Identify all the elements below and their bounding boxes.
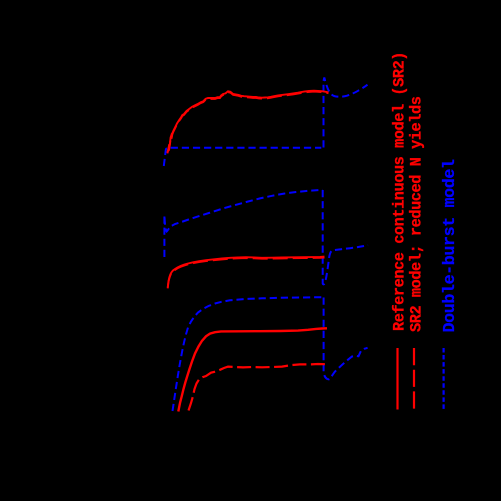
svg-text:SR2 model; reduced N yields: SR2 model; reduced N yields	[408, 96, 426, 332]
svg-text:Double-burst model: Double-burst model	[441, 159, 460, 332]
svg-text:Reference continuous model (SR: Reference continuous model (SR2)	[391, 52, 409, 331]
